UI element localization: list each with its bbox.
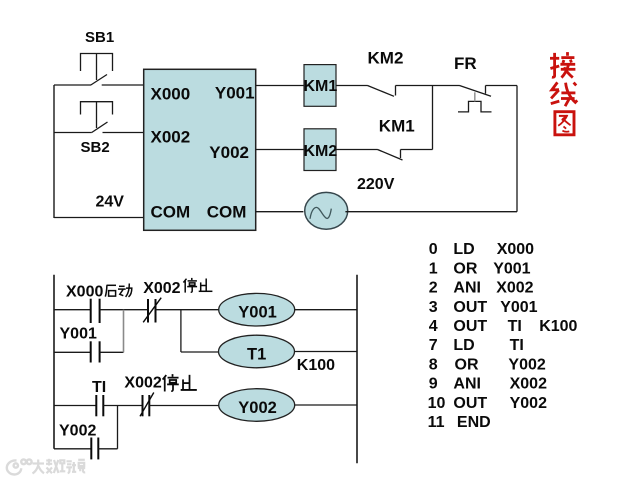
pin label COM right bbox=[207, 202, 247, 221]
svg-text:24V: 24V bbox=[96, 194, 125, 211]
label SB1 bbox=[85, 29, 114, 46]
wire KM2 coil to KM1 contact bbox=[336, 149, 378, 151]
title red character TU (diagram) bbox=[555, 112, 574, 135]
svg-text:SB2: SB2 bbox=[81, 139, 110, 156]
contact X002 NC bbox=[143, 298, 161, 323]
label Y002 contact bbox=[59, 422, 96, 439]
contact KM2 (NO) bbox=[368, 86, 396, 97]
svg-text:Y001: Y001 bbox=[60, 326, 97, 343]
svg-text:Y001: Y001 bbox=[238, 304, 277, 322]
wire SB2 to PLC X002 bbox=[103, 132, 145, 134]
wire 24V bottom to PLC COM bbox=[54, 217, 144, 219]
contactor coil KM2 bbox=[304, 129, 338, 171]
instruction list bbox=[428, 241, 578, 431]
title red character XIAN (wire) bbox=[551, 82, 577, 106]
wire Y002 branch b bbox=[98, 448, 117, 450]
coil Y002 bbox=[219, 389, 295, 422]
wire rung2 c bbox=[149, 405, 218, 407]
wire KM1 coil to KM2 contact bbox=[336, 85, 368, 87]
svg-text:K100: K100 bbox=[297, 357, 335, 374]
label X002 (rung 1) bbox=[143, 280, 180, 297]
wire T1 to right rail bbox=[295, 351, 358, 353]
pushbutton SB2 bbox=[81, 102, 113, 133]
label K100 bbox=[297, 357, 335, 374]
wire right rail vertical bbox=[516, 86, 518, 212]
watermark text da-shu-kua-jing bbox=[33, 459, 86, 474]
contact KM1 (NO) bbox=[378, 150, 403, 161]
label tingzhi (stop) rung2 bbox=[163, 374, 197, 391]
label SB2 bbox=[81, 139, 110, 156]
svg-text:9ANIX002: 9ANIX002 bbox=[429, 376, 547, 393]
svg-text:2ANIX002: 2ANIX002 bbox=[429, 280, 534, 297]
wire rung1 d bbox=[295, 309, 357, 311]
svg-text:KM1: KM1 bbox=[304, 78, 338, 95]
title red character JIE (connect) bbox=[550, 52, 575, 78]
label tingzhi (stop) rung1 bbox=[183, 278, 212, 293]
wire Y001 branch riser (gray) bbox=[123, 310, 125, 353]
contactor coil KM1 bbox=[304, 65, 338, 107]
wire PLC Y002 to KM2 coil bbox=[256, 149, 304, 151]
svg-text:0LDX000: 0LDX000 bbox=[429, 241, 534, 258]
svg-text:SB1: SB1 bbox=[85, 29, 114, 46]
PLC box bbox=[144, 69, 256, 230]
wire FR to right rail bbox=[486, 85, 518, 87]
label qidong (start) bbox=[105, 284, 132, 297]
svg-text:TI: TI bbox=[92, 379, 106, 396]
svg-text:4OUTTIK100: 4OUTTIK100 bbox=[429, 318, 578, 335]
contact Y001 bbox=[91, 341, 100, 362]
label Y001 contact bbox=[60, 326, 97, 343]
wire AC source to right rail bbox=[345, 211, 517, 213]
coil Y001 bbox=[219, 293, 295, 326]
svg-text:KM2: KM2 bbox=[368, 48, 404, 67]
label KM2 bbox=[368, 48, 404, 67]
svg-text:X000: X000 bbox=[151, 84, 191, 103]
wire SB2 left bbox=[54, 132, 92, 134]
svg-text:KM1: KM1 bbox=[379, 116, 415, 135]
pin label X002 bbox=[151, 127, 191, 146]
wire SB1 left bbox=[54, 84, 91, 86]
wire rung2 d bbox=[295, 404, 357, 406]
ladder right rail bbox=[356, 275, 358, 464]
svg-text:X000: X000 bbox=[66, 284, 103, 301]
wire Y002 branch riser bbox=[117, 406, 119, 449]
svg-text:Y002: Y002 bbox=[238, 399, 277, 417]
wire left rail of wiring diagram bbox=[53, 85, 55, 218]
svg-text:220V: 220V bbox=[357, 176, 395, 193]
svg-text:8ORY002: 8ORY002 bbox=[429, 356, 546, 373]
svg-text:10OUTY002: 10OUTY002 bbox=[428, 395, 547, 412]
label KM1 bbox=[379, 116, 415, 135]
svg-text:Y001: Y001 bbox=[215, 84, 255, 103]
wire KM1 contact to junction vertical bbox=[401, 149, 433, 151]
wire rung1 b bbox=[100, 309, 148, 311]
watermark logo bbox=[7, 459, 32, 474]
svg-text:KM2: KM2 bbox=[304, 143, 338, 160]
ladder left rail bbox=[53, 275, 55, 449]
thermal relay contact FR bbox=[458, 86, 492, 112]
wire T1 branch a bbox=[181, 351, 219, 353]
svg-text:7LDTI: 7LDTI bbox=[429, 337, 524, 354]
wire junction vertical bbox=[432, 86, 434, 150]
pin label Y002 bbox=[209, 143, 249, 162]
svg-text:1ORY001: 1ORY001 bbox=[429, 260, 531, 277]
label X000 (rung 1) bbox=[66, 284, 103, 301]
label FR bbox=[454, 54, 477, 73]
contact X002 NC rung2 bbox=[140, 393, 154, 417]
wire KM2 contact to junction bbox=[396, 85, 433, 87]
wire T1 branch riser bbox=[180, 310, 182, 352]
svg-text:Y002: Y002 bbox=[59, 422, 96, 439]
svg-text:Y002: Y002 bbox=[209, 143, 249, 162]
pin label Y001 bbox=[215, 84, 255, 103]
label TI contact bbox=[92, 379, 106, 396]
pin label COM left bbox=[151, 202, 191, 221]
svg-text:X002: X002 bbox=[124, 375, 161, 392]
wire SB1 to PLC X000 bbox=[102, 84, 144, 86]
coil T1 bbox=[219, 335, 295, 368]
wire rung1 a bbox=[54, 309, 91, 311]
pushbutton SB1 bbox=[81, 54, 113, 86]
pin label X000 bbox=[151, 84, 191, 103]
FR gray link bbox=[474, 92, 476, 101]
contact TI bbox=[96, 395, 103, 416]
svg-text:11END: 11END bbox=[428, 414, 491, 431]
AC source 220V bbox=[305, 192, 348, 229]
wire Y001 branch a bbox=[54, 351, 91, 353]
contact Y002 bbox=[91, 438, 98, 460]
svg-text:COM: COM bbox=[207, 202, 247, 221]
wire junction to FR bbox=[433, 85, 460, 87]
svg-text:X002: X002 bbox=[143, 280, 180, 297]
wire rung1 c bbox=[156, 309, 219, 311]
contact X000 bbox=[91, 299, 100, 323]
label X002 (rung 2) bbox=[124, 375, 161, 392]
svg-text:X002: X002 bbox=[151, 127, 191, 146]
svg-text:T1: T1 bbox=[247, 345, 266, 363]
svg-text:3OUTY001: 3OUTY001 bbox=[429, 299, 538, 316]
wire rung2 b bbox=[103, 405, 142, 407]
wire PLC COM to AC source bbox=[256, 211, 304, 213]
svg-text:COM: COM bbox=[151, 202, 191, 221]
wire rung2 a bbox=[54, 405, 96, 407]
wire Y001 branch b bbox=[100, 351, 124, 353]
label 24V bbox=[96, 194, 125, 211]
wire PLC Y001 to KM1 coil bbox=[256, 85, 304, 87]
svg-text:FR: FR bbox=[454, 54, 477, 73]
wire Y002 branch a bbox=[54, 448, 91, 450]
label 220V bbox=[357, 176, 395, 193]
